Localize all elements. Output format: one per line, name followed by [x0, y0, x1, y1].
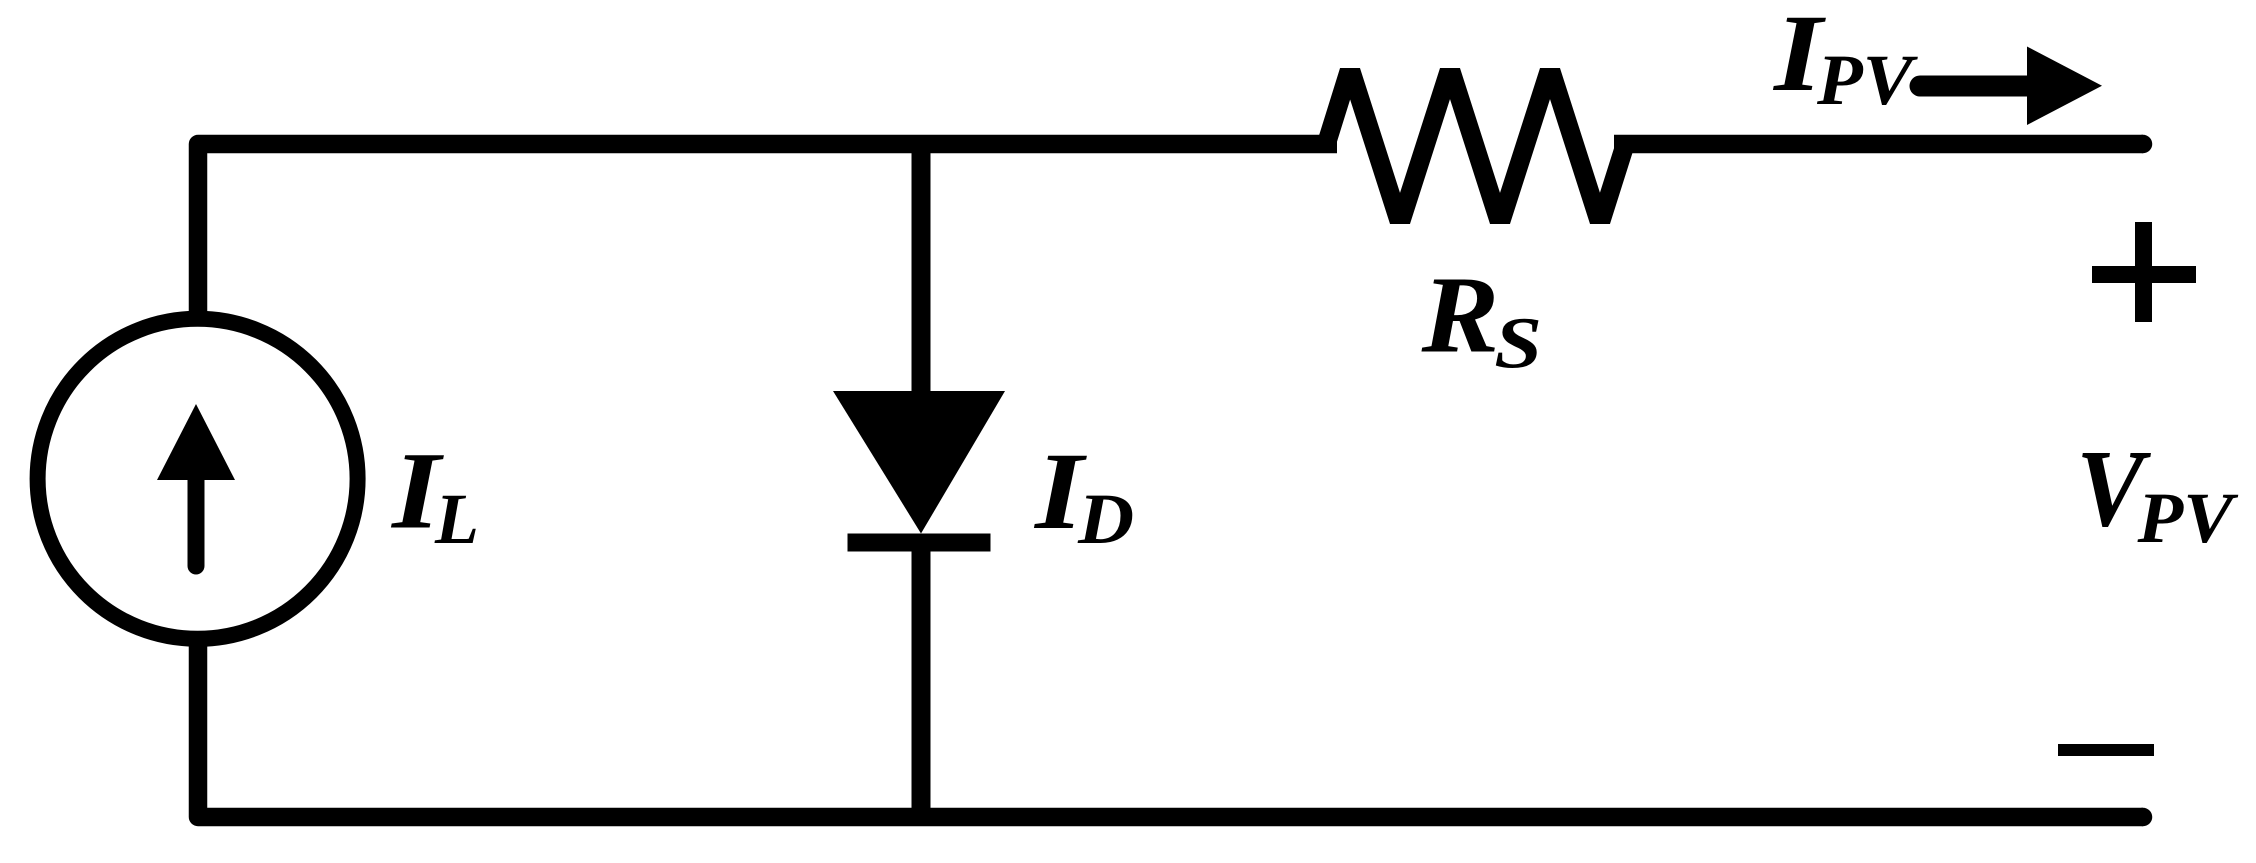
- current arrow I_PV: [1920, 47, 2102, 126]
- wire: diode branch from top rail down to diode anode: [912, 144, 931, 396]
- current source I_L (arrow head): [157, 404, 235, 480]
- label RS: [1421, 254, 1542, 384]
- svg-text:PV: PV: [2136, 478, 2238, 557]
- diode D (cathode bar): [848, 534, 991, 552]
- wire: bottom rail from current source to negative output terminal: [198, 645, 2143, 817]
- svg-text:PV: PV: [1816, 40, 1918, 119]
- label V_PV: [2076, 428, 2238, 558]
- wire: top rail from current source up and right to resistor: [198, 144, 1337, 313]
- current source I_L (circle): [38, 319, 358, 639]
- label I_D: [1033, 431, 1134, 559]
- svg-text:L: L: [434, 479, 479, 559]
- label I_PV: [1772, 0, 1918, 120]
- minus terminal: [2058, 744, 2154, 756]
- svg-text:D: D: [1077, 479, 1134, 559]
- resistor RS (zigzag): [1326, 68, 1625, 224]
- wire: diode branch from cathode down to bottom rail: [912, 551, 931, 817]
- plus terminal: [2092, 222, 2196, 322]
- current source I_L (arrow shaft): [188, 472, 205, 566]
- diode D (anode triangle): [833, 391, 1005, 534]
- label I_L: [390, 431, 479, 559]
- svg-text:S: S: [1494, 303, 1542, 384]
- wire: resistor to positive output terminal: [1614, 135, 2143, 154]
- svg-text:R: R: [1421, 254, 1500, 375]
